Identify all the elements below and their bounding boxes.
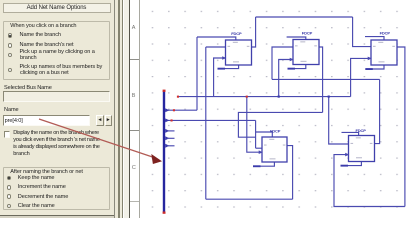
radio: Pick up names of bus members	[8, 68, 13, 73]
wire FF4 Q loop	[287, 146, 293, 200]
wire FF3 CLR stub	[366, 65, 384, 69]
wire FF3 Q down	[397, 47, 405, 207]
zone letter A	[132, 25, 136, 31]
flip-flop U3 body	[371, 40, 397, 65]
flip-flop U5 body	[349, 136, 375, 162]
radio: Keep the name (selected)	[7, 176, 12, 181]
clock pin triangles	[222, 56, 372, 156]
group box: After naming the branch or net	[3, 167, 111, 210]
name edit field with pre[4:0]	[3, 115, 90, 126]
CLR bubbles (thick dashes)	[218, 68, 373, 168]
zone divider A/B	[130, 59, 139, 60]
label Selected Bus Name	[4, 85, 52, 91]
radio: Pick up a name by clicking on a branch	[8, 53, 13, 58]
bus tap3 stub	[167, 130, 175, 132]
wire tap2 horiz	[164, 119, 256, 121]
wire FF2 CLR stub	[288, 65, 306, 69]
panel right edge stripes / splitter	[114, 0, 115, 218]
wire V2 feedback vertical	[205, 47, 207, 199]
dialog bottom border	[0, 215, 117, 217]
wire FF1 C horiz + V3	[214, 58, 226, 97]
wire top rail to FF3 D	[353, 17, 371, 47]
zone divider B/C	[130, 130, 139, 131]
label Name	[4, 107, 19, 113]
title header box	[3, 3, 112, 13]
flip-flop U4 body	[262, 137, 287, 162]
flip-flop U1 body	[226, 40, 252, 65]
radio: Name the branch's net	[8, 43, 13, 48]
wire FF4 D	[256, 147, 262, 149]
zone letter C	[132, 165, 136, 171]
wire tap2 drop	[255, 120, 257, 148]
bus tap4 stub	[167, 137, 175, 139]
wire bottom rail R2 + FF5 C	[334, 155, 405, 207]
zone divider C/D	[130, 201, 139, 202]
wire FF2 Q to FF4 jogs	[238, 112, 322, 137]
zone letter B	[132, 93, 136, 99]
wire FF5 CLR stub	[341, 162, 361, 166]
wire FF4 CLR stub	[254, 162, 275, 166]
svg-text:FDCP: FDCP	[380, 31, 391, 36]
bus dangling end caps (red)	[163, 90, 166, 92]
radio: Increment the name	[7, 185, 12, 190]
wire FF2 PRE	[287, 37, 306, 40]
bus tap5 stub	[167, 145, 175, 147]
wire FF1 PRE horiz	[197, 37, 236, 40]
wire FF5 PRE	[342, 132, 359, 135]
FDCP labels	[231, 30, 390, 133]
wire V329 to FF5 D	[329, 97, 349, 144]
bus vertical pre[4:0]	[163, 91, 165, 212]
schematic zone column (white)	[130, 0, 139, 218]
wire top rail	[256, 16, 353, 18]
radio: Clear the name	[7, 204, 12, 209]
zone column right separator line	[139, 0, 140, 218]
flip-flop bodies	[226, 40, 398, 163]
wire FF4 PRE	[256, 132, 273, 137]
svg-text:FDCP: FDCP	[356, 128, 367, 133]
svg-text:FDCP: FDCP	[231, 31, 242, 36]
wire FF3 PRE	[365, 37, 384, 40]
red annotation arrow from Name field to bus branches	[39, 119, 153, 157]
red junction / dangling dots	[171, 96, 248, 122]
wire FF2 C	[279, 60, 293, 97]
flip-flop U2 body	[293, 40, 319, 65]
svg-text:FDCP: FDCP	[270, 129, 281, 134]
grid dots	[141, 0, 412, 218]
radio: Name the branch (selected)	[8, 33, 13, 38]
wire FF1 D horiz	[206, 46, 226, 48]
blue junction dots	[278, 96, 330, 98]
wire FF1 Q to top rail	[252, 17, 256, 47]
wire feedback H_a	[272, 78, 380, 80]
wire FF2 D	[272, 47, 293, 79]
checkbox Display the name	[4, 131, 11, 138]
wire bottom rail R1	[206, 198, 293, 200]
wire FF3 C	[351, 58, 371, 96]
radio: Decrement the name	[7, 194, 12, 199]
wire FF2 Q down	[319, 47, 323, 112]
faint pin name smudges	[228, 41, 395, 159]
wire V1 pre-net vertical	[196, 37, 198, 110]
wire FF5 Q riser	[375, 79, 380, 143]
wire V247 clock drop to FF4 C	[247, 97, 262, 153]
spinner button left	[96, 115, 103, 125]
bus taps	[165, 108, 169, 148]
selected bus name field (disabled sunken)	[3, 91, 110, 102]
wire bus tap1 horiz	[164, 109, 197, 111]
dialog panel background	[0, 0, 118, 218]
wire FF1 CLR stub	[218, 65, 239, 69]
group box: When you click on a branch	[3, 21, 111, 81]
wire clock rail H1	[178, 96, 351, 98]
spinner button right	[105, 115, 112, 125]
svg-text:FDCP: FDCP	[302, 30, 313, 35]
